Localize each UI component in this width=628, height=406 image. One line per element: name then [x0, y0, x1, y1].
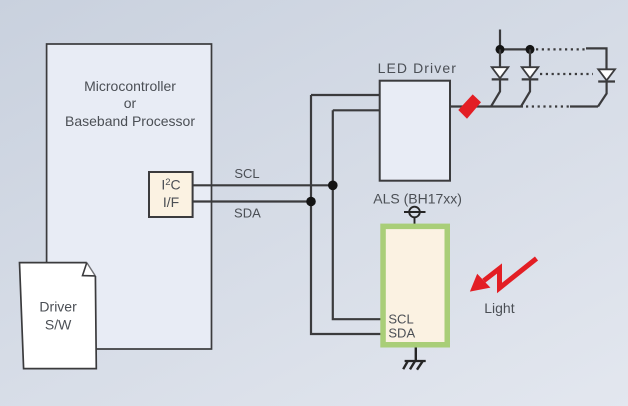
wire SDA branch to LED Driver — [311, 94, 380, 96]
red diamond (current source marker) — [458, 94, 481, 118]
junction dot SDA — [306, 197, 316, 207]
svg-text:SDA: SDA — [234, 206, 261, 221]
junction dot anode D2 — [526, 45, 535, 54]
dotted row (more LEDs) — [540, 73, 593, 75]
wire SDA vertical net to ALS SDA pin — [311, 95, 382, 334]
wire SCL vertical net to ALS SCL pin — [333, 110, 382, 319]
svg-text:Baseband Processor: Baseband Processor — [65, 113, 195, 129]
wire anode corner to D3 — [586, 48, 607, 69]
svg-text:SDA: SDA — [388, 326, 415, 341]
block: I2C I/F — [149, 172, 193, 217]
wire SCL branch to LED Driver — [333, 109, 380, 111]
svg-text:Microcontroller: Microcontroller — [84, 78, 176, 94]
wire LED bus dotted continuation — [526, 105, 570, 107]
wire LED driver output bus (solid) — [450, 105, 523, 107]
svg-text:SCL: SCL — [234, 166, 259, 181]
svg-text:S/W: S/W — [45, 317, 72, 333]
svg-text:ALS (BH17xx): ALS (BH17xx) — [373, 191, 462, 207]
pin symbol (supply terminal) above ALS — [404, 207, 426, 225]
junction dot SCL — [328, 181, 338, 191]
svg-text:LED Driver: LED Driver — [378, 60, 457, 76]
svg-text:I/F: I/F — [163, 194, 179, 210]
wire SDA from I2C I/F — [193, 200, 311, 202]
LED D1 — [491, 49, 508, 106]
LED D3 — [598, 69, 615, 106]
red arrow: incident light — [470, 259, 537, 292]
wire anode stub above LED D1 — [499, 30, 501, 50]
block: ALS sensor (green box) — [383, 226, 447, 344]
svg-text:Light: Light — [484, 300, 514, 316]
svg-text:or: or — [124, 95, 137, 111]
svg-text:SCL: SCL — [388, 312, 413, 327]
block: LED Driver — [378, 60, 457, 181]
document: Driver S/W — [20, 263, 97, 369]
junction dot anode D1 — [496, 45, 505, 54]
block: Microcontroller / Baseband Processor — [47, 44, 212, 349]
wire anode bus D1-D2 — [500, 48, 530, 50]
wire anode bus dotted — [536, 48, 586, 50]
LED D2 — [521, 49, 538, 106]
wire LED bus solid end — [570, 105, 598, 107]
wire SCL from I2C I/F — [193, 184, 333, 186]
ground symbol — [403, 348, 426, 370]
svg-text:I2C: I2C — [161, 177, 180, 193]
svg-text:Driver: Driver — [39, 299, 77, 315]
